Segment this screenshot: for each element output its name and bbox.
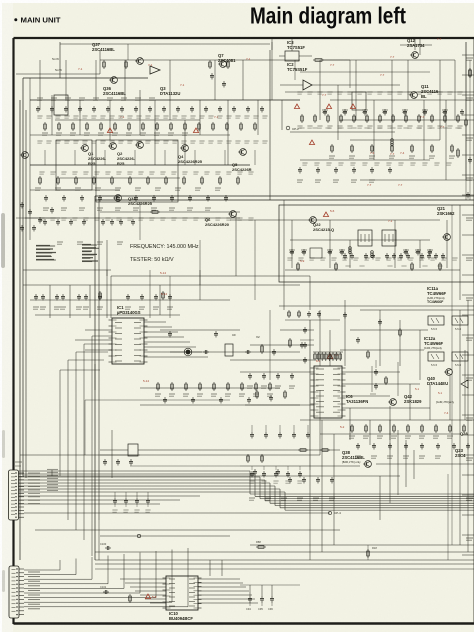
svg-text:5-14: 5-14 (161, 292, 167, 296)
